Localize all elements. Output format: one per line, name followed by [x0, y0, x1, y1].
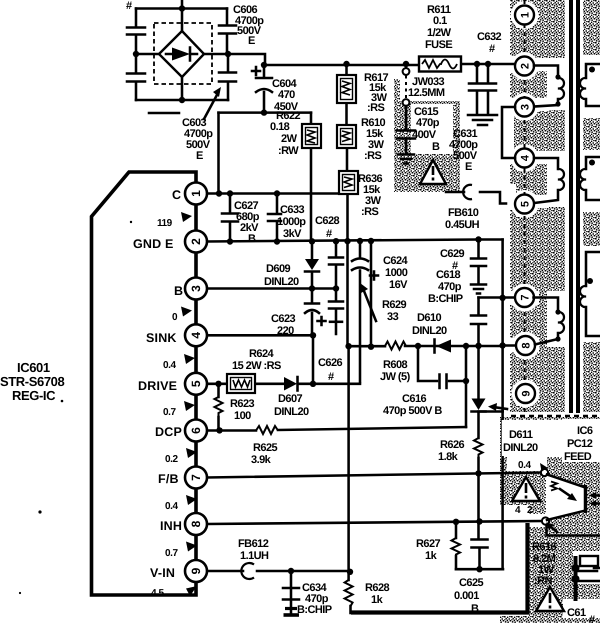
svg-text:0.18: 0.18: [270, 121, 290, 133]
svg-text:9: 9: [189, 567, 203, 574]
secondary winding 1: [580, 64, 600, 106]
capacitor (AC line bottom) plates: [127, 74, 145, 82]
wire: C628 column caps: [335, 241, 338, 334]
node: F/B R626 col: [475, 470, 481, 476]
svg-text:R626: R626: [440, 439, 465, 451]
svg-text:R608: R608: [383, 359, 408, 371]
wire: R622 row: [219, 111, 312, 114]
svg-text:6: 6: [189, 427, 203, 434]
svg-text:B:CHIP: B:CHIP: [297, 604, 332, 616]
wire: C627 column: [229, 194, 232, 242]
node: GND C627: [227, 238, 233, 244]
svg-text:1: 1: [520, 12, 532, 18]
D611 label box (covers wire): [502, 420, 562, 456]
resistor R628 zigzag: [345, 580, 353, 606]
diode D609: [305, 259, 319, 272]
svg-text:IC601: IC601: [17, 360, 50, 375]
svg-text:100: 100: [234, 410, 251, 422]
node: C616 bottom junction: [463, 378, 469, 384]
svg-text:B: B: [471, 603, 479, 615]
capacitor C633: [268, 214, 281, 221]
resistor R610 (fusible box): [337, 125, 356, 148]
secondary winding 3: [580, 252, 600, 336]
resistor R636 (fusible box): [339, 171, 358, 194]
svg-text:E: E: [248, 35, 255, 47]
svg-text::RW: :RW: [278, 145, 299, 157]
wire: bottom rail C625: [456, 568, 503, 571]
wire: transformer pin7 link: [479, 296, 516, 299]
node: bottom of diamond: [179, 97, 185, 103]
wire: C618 column: [477, 298, 480, 346]
svg-text:C623: C623: [271, 313, 296, 325]
primary winding 7-8: [534, 298, 565, 345]
node: C625 bottom: [476, 566, 482, 572]
svg-text:FB610: FB610: [448, 207, 479, 219]
node: pin6 R623: [216, 427, 222, 433]
svg-text:1: 1: [189, 190, 203, 197]
svg-text:119: 119: [157, 218, 173, 229]
white cutout: right-edge resistor box zone: [573, 551, 600, 584]
svg-text:0: 0: [172, 312, 178, 323]
svg-text:REG-IC: REG-IC: [12, 388, 56, 403]
wire: C624 column: [359, 241, 362, 382]
wire: right GND drop column: [501, 240, 504, 412]
wire: R627 column: [455, 522, 458, 569]
capacitor C628a: [329, 258, 343, 265]
C624 plus sign: [370, 272, 378, 280]
halftone shading: transformer region: [510, 0, 600, 412]
svg-text:3.9k: 3.9k: [251, 454, 272, 466]
white cutout: IC/PC1 label box: [562, 419, 600, 462]
capacitor C623 (polarized): [305, 304, 319, 314]
svg-text:9: 9: [521, 390, 533, 396]
node: JW033 top: [403, 61, 409, 67]
white cutout: left of thick border (C625 zone): [500, 505, 529, 616]
resistor R624 (fusible box): [227, 374, 255, 393]
C634 terminal bars: [285, 607, 297, 610]
wire: D607 top link column: [312, 335, 315, 384]
svg-text::RS: :RS: [364, 150, 382, 162]
svg-text:DINL20: DINL20: [503, 442, 538, 454]
wire: C634 column: [290, 571, 293, 598]
wire: plus column: [370, 241, 373, 347]
bracket pins 3-4: [502, 107, 515, 158]
svg-text:D611: D611: [509, 429, 533, 441]
capacitor C615: [397, 106, 415, 153]
svg-text:DINL20: DINL20: [264, 276, 299, 288]
svg-text:470: 470: [278, 89, 295, 101]
wire: AC stub: [149, 112, 179, 115]
capacitor C625: [472, 540, 488, 548]
ground (C615): [398, 155, 414, 164]
svg-text:5: 5: [520, 201, 532, 207]
transformer core: [571, 0, 578, 413]
capacitor C627: [222, 214, 238, 222]
svg-text:0.001: 0.001: [454, 590, 479, 602]
svg-text:FEED: FEED: [564, 451, 592, 463]
svg-text:E: E: [465, 161, 472, 173]
node: GND C624: [357, 238, 363, 244]
IC601 pin circles: [185, 183, 207, 583]
transformer pin numbers: [520, 12, 533, 397]
C604 plus sign: [252, 67, 260, 75]
svg-text:STR-S6708: STR-S6708: [0, 374, 64, 389]
node: C606 column mid: [225, 51, 231, 57]
svg-text:R616: R616: [532, 541, 557, 553]
svg-text:7: 7: [520, 294, 532, 300]
node: rowS C616 left: [415, 343, 421, 349]
white cutout: D611 label box: [501, 420, 562, 457]
node: pin5 D607: [310, 381, 316, 387]
svg-text:C618: C618: [436, 269, 461, 281]
svg-text:0.2: 0.2: [165, 454, 178, 465]
wire: pin5 row: [207, 383, 360, 386]
wire: pin8 row INH: [207, 521, 542, 524]
svg-text:D610: D610: [417, 312, 442, 324]
white cutout: core strip: [565, 0, 583, 413]
svg-text:470p: 470p: [416, 117, 440, 129]
wire: GND row (pin2): [207, 240, 503, 242]
wire: mid rail right with jog to fuse row: [204, 54, 265, 65]
node: pin4 C623: [310, 332, 316, 338]
wire: D611 R626 C625 column: [479, 346, 480, 569]
pointer arrow C603: [204, 87, 221, 119]
pointer arrow D611: [488, 403, 507, 411]
svg-text:8: 8: [189, 520, 203, 527]
svg-text:C625: C625: [459, 577, 484, 589]
white cutout: primary winding zones: [533, 58, 549, 71]
svg-text:V-IN: V-IN: [150, 566, 175, 580]
node: F/B open circle: [541, 469, 548, 476]
svg-text:R628: R628: [365, 582, 390, 594]
wire: pin1 feed column: [217, 113, 220, 194]
svg-text:#: #: [589, 614, 595, 623]
wire: D611 cathode link: [479, 410, 503, 413]
node: INH open circle: [542, 517, 549, 524]
jumper JW033 open pins and dashed body: [403, 64, 410, 106]
opto pin arrow annotation top: [540, 463, 548, 472]
wire: pin4 row: [207, 334, 313, 337]
wire: C604 column: [263, 65, 266, 113]
svg-text:#: #: [126, 0, 132, 12]
wire: top rail: [136, 7, 227, 10]
wire: R617-R610-R636 column: [347, 64, 348, 346]
wire: R622 column: [310, 113, 313, 242]
right edge resistor box partial: [572, 556, 600, 601]
svg-text:D609: D609: [266, 263, 291, 275]
svg-text:7: 7: [189, 474, 203, 481]
resistor R608 zigzag: [385, 342, 406, 350]
bridge rectifier D601 diamond: [159, 31, 204, 77]
IC601 outline: [92, 172, 197, 595]
svg-text:F/B: F/B: [158, 472, 179, 486]
capacitor C618: [471, 316, 486, 325]
resistor R622 (fusible box): [302, 124, 321, 148]
capacitor C631 (double): [469, 64, 496, 114]
svg-text:R624: R624: [249, 348, 275, 360]
svg-text:4: 4: [520, 154, 532, 161]
svg-text:1k: 1k: [371, 594, 384, 606]
svg-text:470p: 470p: [438, 281, 462, 293]
node: pin9 end: [347, 569, 353, 575]
svg-text:IC6: IC6: [577, 425, 593, 437]
wire: mid rail left: [136, 53, 159, 56]
svg-text:3kV: 3kV: [283, 228, 302, 240]
svg-text:DCP: DCP: [155, 425, 182, 439]
svg-text:8: 8: [521, 342, 533, 348]
transformer T601 dashed pin column: [524, 0, 526, 416]
svg-text:#: #: [328, 371, 334, 383]
node: rowS right end: [499, 342, 505, 348]
bridge rectifier dashed box: [154, 23, 212, 84]
svg-text:FB612: FB612: [238, 538, 269, 550]
svg-text:2W: 2W: [281, 133, 298, 145]
svg-text:0.4: 0.4: [163, 360, 176, 371]
wire: pin3 row: [207, 287, 336, 290]
diode D607: [284, 377, 298, 391]
node: C627 top: [227, 190, 233, 196]
node: C604 bottom: [261, 109, 267, 115]
node: INH R627: [453, 519, 459, 525]
svg-text:0.4: 0.4: [518, 460, 531, 471]
white cutout: C615 text: [411, 104, 453, 154]
C623 plus sign: [318, 317, 326, 325]
node: C631 top b: [485, 61, 491, 67]
svg-text:C629: C629: [440, 248, 465, 260]
svg-text:INH: INH: [160, 519, 182, 533]
white cutout: secondary winding zones: [581, 55, 600, 118]
svg-text:15 2W :RS: 15 2W :RS: [232, 360, 281, 372]
svg-text:3: 3: [520, 104, 532, 110]
capacitor C606: [219, 26, 236, 34]
wire: pin1 row: [207, 192, 347, 195]
svg-text:1000: 1000: [385, 267, 408, 279]
svg-text:1k: 1k: [425, 550, 438, 562]
halftone shading: bottom-right region: [500, 417, 600, 623]
svg-text:R627: R627: [416, 538, 441, 550]
node: pin5 R623: [215, 381, 221, 387]
node: GND C633: [274, 238, 280, 244]
white halos: transformer pin circles: [511, 1, 539, 29]
svg-text:1.1UH: 1.1UH: [240, 550, 269, 562]
white cutout: opto interior: [546, 474, 586, 520]
wire: pin7 row F/B: [207, 473, 541, 478]
wire: left AC rail with cap gaps: [135, 9, 138, 101]
svg-text:5: 5: [189, 380, 203, 387]
pointer arrow R629: [360, 283, 376, 321]
opto pin arrow annotation bottom: [546, 523, 557, 533]
node: top junction: [179, 5, 185, 11]
svg-text::RN: :RN: [534, 575, 553, 587]
white cutout: INH wire halo: [529, 514, 549, 527]
svg-text:C633: C633: [280, 204, 305, 216]
wire: D609 column: [311, 241, 314, 288]
resistor R625 zigzag: [256, 426, 278, 434]
transformer pin circles: [515, 6, 535, 404]
node: pin7 link drop: [499, 295, 505, 301]
wire: C603 column: [227, 54, 230, 100]
white cutout: pin3-4 bracket: [496, 98, 514, 164]
warning triangle (bottom right): [536, 587, 564, 611]
svg-text:C624: C624: [383, 255, 409, 267]
svg-text:C628: C628: [315, 215, 340, 227]
ground (C629): [471, 267, 486, 294]
svg-text:1.8k: 1.8k: [438, 451, 459, 463]
svg-text:DINL20: DINL20: [412, 325, 447, 337]
scan specks: [61, 400, 64, 403]
svg-text:1/2W: 1/2W: [427, 27, 452, 39]
ground (C631): [468, 115, 497, 125]
capacitor (AC line top) plates: [127, 28, 145, 35]
svg-text:33: 33: [387, 311, 399, 323]
IC pin voltage arrowheads: [181, 212, 197, 596]
capacitor C624 (polarized curved): [352, 259, 368, 271]
svg-text:B: B: [432, 141, 440, 153]
svg-text:0.45UH: 0.45UH: [445, 219, 480, 231]
wire: C633 column: [276, 194, 279, 242]
capacitor C616 bars: [440, 375, 447, 389]
diode D611: [472, 399, 486, 412]
node: GND right: [475, 236, 481, 242]
svg-text:C632: C632: [477, 31, 502, 43]
node: C633 top: [274, 190, 280, 196]
svg-text:0.1: 0.1: [433, 15, 447, 27]
node: GND D609: [309, 238, 315, 244]
resistor R627 zigzag: [452, 538, 461, 557]
wire: fuse row: [265, 64, 515, 65]
wire: pin6 row OCP: [207, 427, 466, 431]
node: C631 top a: [474, 61, 480, 67]
node: pin3 C628col: [333, 285, 339, 291]
wire: row S (snubber row): [349, 345, 503, 348]
node: INH C625: [476, 518, 482, 524]
wire: center long column: [349, 346, 351, 613]
node: rowS plus-col: [368, 344, 374, 350]
svg-text:SINK: SINK: [146, 331, 177, 345]
svg-text:GND E: GND E: [133, 237, 174, 251]
capacitor C628b: [329, 302, 343, 309]
wire: bridge top column: [181, 0, 184, 31]
svg-text:R629: R629: [382, 299, 407, 311]
thick isolation border: [351, 523, 528, 613]
capacitor C628b lower bar: [330, 321, 342, 324]
svg-text:0.7: 0.7: [163, 407, 176, 418]
svg-text::RS: :RS: [367, 102, 385, 114]
bridge diode symbol: [166, 48, 197, 61]
resistor R617 (fusible box): [337, 75, 356, 103]
wire: right drop to bottom rail: [501, 411, 504, 569]
svg-text:400V: 400V: [412, 129, 437, 141]
svg-text:4: 4: [515, 505, 521, 516]
svg-text:B:CHIP: B:CHIP: [428, 293, 463, 305]
IC601 pin numbers (rotated): [189, 190, 203, 575]
svg-text:220: 220: [277, 325, 294, 337]
node: pin1 feed: [216, 190, 222, 196]
svg-text:2: 2: [520, 63, 532, 69]
svg-text:470p 500V B: 470p 500V B: [383, 405, 442, 417]
svg-text:0.7: 0.7: [165, 548, 178, 559]
wire: transformer pin8 link: [503, 344, 516, 347]
svg-text::RS: :RS: [361, 206, 379, 218]
svg-text:4: 4: [189, 332, 203, 339]
primary winding 2-3: [534, 66, 564, 107]
wire: C629 column: [477, 240, 480, 259]
svg-text:2: 2: [527, 505, 533, 516]
warning triangle (C615 area): [420, 160, 446, 184]
svg-text:12.5MM: 12.5MM: [408, 87, 445, 99]
svg-text:FUSE: FUSE: [425, 39, 452, 51]
svg-text:4.5: 4.5: [151, 588, 164, 599]
wire: pin9 row: [207, 570, 350, 573]
primary winding 4-5: [534, 158, 564, 203]
svg-text:R623: R623: [230, 398, 255, 410]
halftone shading: C615 patch: [394, 79, 460, 192]
white cutout: fuse row entry: [510, 56, 520, 72]
svg-text:D607: D607: [278, 393, 303, 405]
transformer dashed bottom border: [511, 415, 600, 417]
optocoupler outline: [547, 475, 600, 521]
diode D610: [435, 340, 452, 353]
svg-text:16V: 16V: [389, 279, 408, 291]
resistor R626 zigzag: [474, 438, 483, 458]
wire: bridge bottom column: [181, 77, 184, 100]
white cutout: FB610 wire: [494, 184, 516, 210]
resistor R623 zigzag: [215, 397, 223, 417]
ferrite bead FB610: [446, 185, 506, 204]
node: C604 top: [261, 62, 267, 68]
capacitor C629: [471, 259, 486, 267]
svg-text:#: #: [326, 228, 332, 240]
svg-text:3: 3: [189, 285, 203, 292]
node: rowS left: [345, 343, 351, 349]
node: rowS C616 right: [463, 343, 469, 349]
node: GND C628: [333, 238, 339, 244]
svg-text:2: 2: [189, 238, 203, 245]
svg-text:C: C: [172, 188, 181, 202]
node: left rail mid: [133, 51, 139, 57]
svg-text:#: #: [489, 43, 495, 55]
node: R617 top: [343, 61, 349, 67]
secondary winding 2: [580, 157, 600, 200]
wire: C616 staple: [418, 346, 466, 427]
svg-text:C61: C61: [567, 607, 586, 619]
capacitor C604 (polarized): [256, 78, 272, 92]
svg-text:DRIVE: DRIVE: [138, 379, 177, 393]
svg-text:PC12: PC12: [567, 438, 593, 450]
svg-text:DINL20: DINL20: [274, 406, 309, 418]
svg-text:C626: C626: [318, 357, 343, 369]
svg-text:B: B: [174, 284, 183, 298]
R616 top wire: [547, 525, 600, 536]
node: GND R636: [344, 238, 350, 244]
wire: C623 column: [311, 289, 314, 336]
capacitor C603: [219, 73, 236, 82]
node: GND plus-col: [368, 238, 374, 244]
white cutout: 0.4 label: [507, 454, 547, 471]
wire: R623 column: [217, 384, 220, 430]
svg-text:B: B: [248, 233, 256, 245]
svg-text:E: E: [196, 150, 203, 162]
warning triangle (opto area): [512, 477, 540, 501]
wire: bridge bottom rail: [136, 99, 228, 102]
node: pin9 C634: [288, 568, 294, 574]
svg-text:1000p: 1000p: [277, 216, 306, 228]
capacitor C634: [283, 588, 299, 600]
svg-text:C616: C616: [402, 393, 427, 405]
svg-text:0.4: 0.4: [165, 501, 178, 512]
node: pin3 D609: [309, 285, 315, 291]
node: rowS D611 col: [475, 343, 481, 349]
